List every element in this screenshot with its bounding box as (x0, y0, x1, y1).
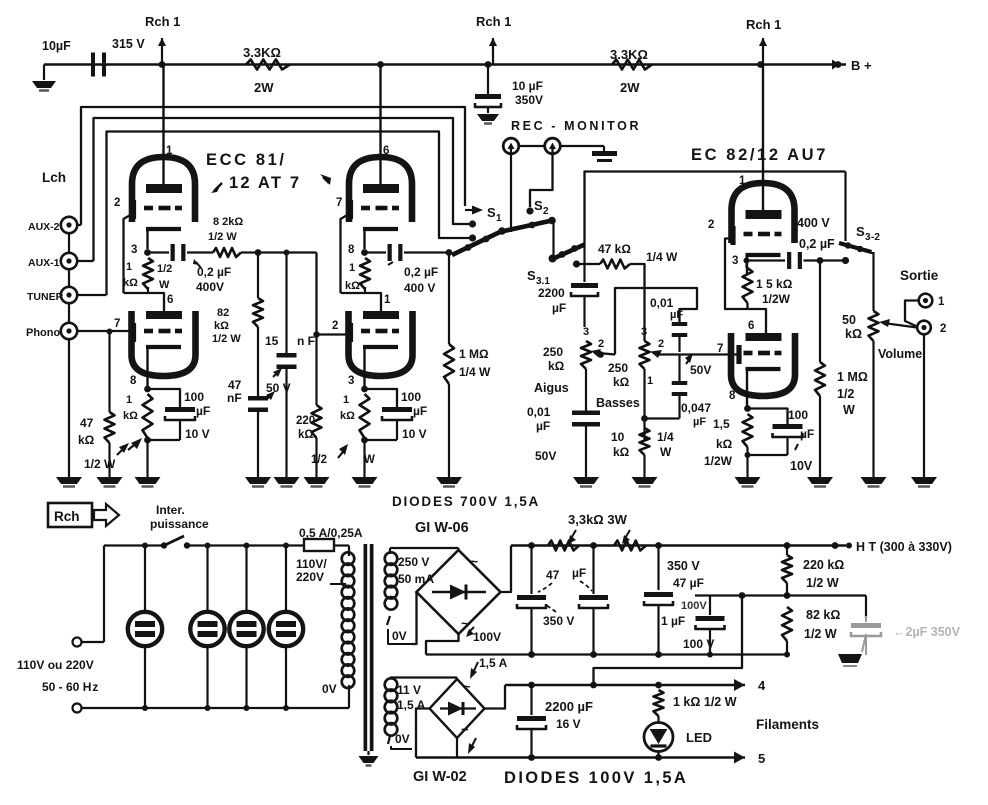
svg-text:TUNER: TUNER (27, 291, 64, 303)
label GI W-06 (415, 520, 469, 536)
svg-text:10 µF: 10 µF (512, 79, 543, 93)
node V2b cathode bottom (361, 437, 368, 477)
wire 8.2k out (241, 251, 317, 253)
fuse 0.5A/0.25A (299, 526, 363, 551)
svg-text:0,01: 0,01 (527, 405, 551, 419)
svg-text:kΩ: kΩ (340, 410, 355, 422)
ground 15nF (274, 477, 300, 487)
svg-text:6: 6 (748, 320, 754, 332)
rectifier bridge GI W-06 (417, 550, 501, 634)
triode V3a upper EC82 (732, 183, 795, 275)
node phono 47k tee (107, 329, 113, 335)
svg-text:100: 100 (788, 408, 808, 422)
svg-text:4: 4 (758, 678, 766, 693)
switch S1 wiper (452, 227, 506, 255)
wire Aigus wiper to bridge (615, 288, 697, 355)
svg-text:10V: 10V (790, 459, 813, 473)
svg-text:50V: 50V (535, 449, 556, 463)
resistor 3.3K 2W right (610, 47, 652, 95)
svg-text:350 V: 350 V (543, 614, 574, 628)
svg-text:~: ~ (463, 679, 471, 694)
label 0V LT winding (391, 732, 412, 749)
svg-text:nF: nF (227, 391, 242, 405)
label 3.3k 3W (568, 512, 630, 544)
switch inter on mains rail (161, 536, 190, 549)
potentiometer 250k Basses (596, 326, 664, 410)
svg-text:2: 2 (543, 206, 549, 217)
jack Sortie 1 (905, 294, 945, 326)
svg-text:100: 100 (401, 390, 421, 404)
svg-text:DIODES 100V 1,5A: DIODES 100V 1,5A (504, 769, 688, 787)
resistor 1.5k 1/2W V3a (743, 255, 793, 306)
jack REC right (530, 138, 560, 207)
capacitor 1uF 100V (661, 596, 725, 655)
svg-text:1: 1 (739, 175, 746, 187)
jack AUX-1 (28, 253, 94, 269)
triode V2b lower (349, 311, 413, 389)
svg-text:0,2 µF: 0,2 µF (197, 265, 231, 279)
wire V3b cathode to ground (745, 447, 751, 477)
ground 220k (304, 477, 330, 487)
svg-text:0,2 µF: 0,2 µF (404, 265, 438, 279)
svg-text:ECC 81/: ECC 81/ (206, 151, 287, 169)
resistor 1.5k V3b cathode (704, 414, 753, 468)
op tube V1a triode upper ECC81 (132, 157, 195, 249)
capacitor 15nF (265, 253, 315, 478)
svg-text:7: 7 (336, 197, 342, 209)
wire jack sleeve chain (68, 233, 70, 477)
svg-text:15: 15 (265, 334, 279, 348)
svg-text:2: 2 (940, 323, 946, 335)
wire HT2 to filament rail link (594, 596, 743, 686)
svg-text:S: S (527, 268, 536, 283)
svg-text:1/4 W: 1/4 W (459, 365, 491, 379)
svg-text:1/2W: 1/2W (762, 292, 791, 306)
jack Sortie 2 (917, 321, 946, 477)
wire bridge2 DC- down (457, 738, 476, 758)
wiper Aigus (591, 349, 615, 358)
capacitor 100uF 10V V1b (148, 389, 211, 441)
svg-text:Volume: Volume (878, 347, 922, 361)
wire bus line 1 AUX-2 to S1 (81, 107, 472, 225)
svg-text:220V: 220V (296, 570, 324, 584)
switch S3-2 (839, 172, 880, 253)
ground jack sleeves (56, 477, 82, 487)
node V2b cathode (361, 386, 368, 393)
svg-text:µF: µF (536, 419, 550, 433)
wire bus line 3 TUNER to S1 contact (107, 132, 470, 296)
jack Phono (26, 323, 131, 339)
resistor 1k V2b cathode (340, 394, 370, 438)
svg-text:S: S (856, 224, 865, 239)
svg-text:W: W (660, 445, 672, 459)
svg-text:REC - MONITOR: REC - MONITOR (511, 119, 641, 133)
wiper volume from sortie (879, 319, 917, 328)
svg-text:kΩ: kΩ (78, 433, 95, 447)
resistor 1k 1/2W LED (654, 690, 737, 716)
tube heater 1 (128, 543, 162, 712)
svg-text:2: 2 (114, 197, 120, 209)
capacitor 0.047uF tone (672, 355, 712, 429)
wire filament rail 4 (505, 682, 745, 689)
svg-text:µF: µF (572, 566, 586, 580)
node 1M volume tap (817, 257, 824, 264)
wire mains left leads (82, 546, 105, 643)
label pin 2 V2b (332, 320, 338, 332)
ground V3b cathode (735, 477, 761, 487)
svg-text:7: 7 (114, 318, 120, 330)
svg-text:1: 1 (349, 262, 355, 274)
label Inter puissance (150, 503, 209, 531)
svg-text:Rch 1: Rch 1 (476, 14, 511, 29)
svg-text:1 MΩ: 1 MΩ (837, 370, 868, 384)
ground sortie (911, 477, 937, 487)
wire 1k to pin 1 (341, 287, 392, 312)
svg-text:16 V: 16 V (556, 717, 581, 731)
svg-text:47 µF: 47 µF (673, 576, 704, 590)
svg-text:3: 3 (348, 375, 354, 387)
wiper Basses (650, 350, 737, 358)
wire grid line from tone (717, 343, 723, 355)
capacitor 47nF (227, 327, 275, 477)
wire V2a plate lead pin 6 (381, 65, 390, 187)
svg-text:kΩ: kΩ (298, 429, 314, 441)
wire V3a plate lead pin 1 (739, 65, 763, 212)
resistor 3.3k 3W first (528, 541, 597, 551)
Rch 1 arrow right (746, 17, 781, 65)
svg-text:µF: µF (693, 416, 706, 428)
label pin 7 V2a (336, 197, 342, 209)
svg-text:n F: n F (297, 334, 315, 348)
contact S1 arrow (472, 205, 502, 224)
svg-text:3.3KΩ: 3.3KΩ (243, 45, 281, 60)
wire V2a grid pin7 down (341, 214, 350, 293)
contact dot S1 b (469, 220, 476, 227)
svg-text:EC 82/12 AU7: EC 82/12 AU7 (691, 146, 828, 164)
svg-text:1/2 W: 1/2 W (804, 627, 837, 641)
svg-text:100 V: 100 V (683, 637, 714, 651)
svg-text:H T (300 à 330V): H T (300 à 330V) (856, 540, 952, 554)
node 15nF tap (284, 250, 290, 256)
wire filament rail 5 (416, 754, 745, 761)
wire cathode to ground (146, 440, 148, 477)
label pin 3 V3a (732, 255, 738, 267)
jack AUX-2 (28, 217, 81, 233)
svg-text:~: ~ (461, 722, 469, 737)
svg-text:Basses: Basses (596, 396, 640, 410)
label pin 2 V3a (708, 219, 714, 231)
svg-text:1,5: 1,5 (713, 417, 730, 431)
ground REC (592, 151, 617, 162)
node S3.1 out (573, 244, 600, 282)
svg-text:kΩ: kΩ (123, 410, 138, 422)
label pin 8 V2a (348, 244, 355, 256)
svg-text:0,047: 0,047 (681, 401, 711, 415)
resistor 220k grid leak V2b (296, 335, 375, 478)
svg-text:50 - 60 H z: 50 - 60 H z (42, 680, 98, 694)
terminal mains top (73, 638, 82, 647)
svg-text:kΩ: kΩ (345, 280, 360, 292)
label DIODES 700V 1.5A (392, 494, 540, 509)
jack REC left (503, 138, 519, 232)
svg-text:1/2 W: 1/2 W (84, 457, 116, 471)
svg-text:S: S (487, 205, 496, 220)
resistor 1k V1a cathode (123, 258, 172, 291)
capacitor extra 2uF 350V faint (851, 596, 961, 656)
svg-text:10: 10 (611, 430, 625, 444)
capacitor 47uF 350V first (517, 546, 546, 655)
svg-text:kΩ: kΩ (613, 375, 630, 389)
svg-text:µF: µF (196, 404, 210, 418)
wire bridge1 AC2 to 0V (411, 592, 417, 644)
svg-text:1: 1 (384, 294, 391, 306)
svg-text:3,3kΩ 3W: 3,3kΩ 3W (568, 512, 628, 527)
svg-text:1/2 W: 1/2 W (208, 231, 237, 243)
svg-text:1 µF: 1 µF (661, 614, 685, 628)
svg-text:1: 1 (343, 394, 349, 406)
LED (644, 716, 712, 758)
svg-text:2200 µF: 2200 µF (545, 699, 593, 714)
svg-text:Aigus: Aigus (534, 381, 569, 395)
svg-text:Filaments: Filaments (756, 717, 819, 732)
wire V1a plate lead pin 1 (164, 65, 174, 187)
node tube2 feed (377, 61, 384, 68)
svg-text:315 V: 315 V (112, 37, 145, 51)
wire volume bottom (872, 341, 874, 477)
label 100V bridge1 (466, 627, 501, 644)
contact dot S3-2 throw (842, 257, 849, 264)
wire bus line 2 AUX-1 to S1 contact (94, 118, 470, 261)
capacitor 0.01uF 50V Aigus bottom (527, 369, 600, 477)
svg-text:47: 47 (546, 568, 560, 582)
svg-text:1: 1 (166, 145, 173, 157)
Rch 1 arrow middle (476, 14, 511, 65)
svg-text:Rch 1: Rch 1 (746, 17, 781, 32)
resistor 10k 1/4W tone (611, 428, 674, 477)
label 1.5A lower bridge (470, 656, 508, 679)
svg-text:11 V: 11 V (397, 683, 421, 697)
svg-text:3: 3 (732, 255, 738, 267)
svg-text:1,5 A: 1,5 A (397, 698, 426, 712)
capacitor 100uF 10V V3b (748, 408, 815, 473)
label ECC 81 / 12 AT 7 (206, 151, 331, 193)
node V3b cathode (744, 405, 751, 412)
svg-text:5: 5 (758, 751, 765, 766)
label 11V 1.5A (397, 683, 426, 712)
tube heater 4 (269, 543, 303, 712)
svg-text:AUX-2: AUX-2 (28, 221, 60, 233)
wire 1.5k to pin 6 plate (748, 303, 767, 334)
node Rch1 tube1 feed (159, 61, 166, 68)
label DIODES 100V 1.5A (504, 769, 688, 787)
resistor 3.3K 2W left (243, 45, 290, 95)
svg-text:Inter.: Inter. (156, 503, 185, 517)
wire psu minus rail (426, 651, 790, 658)
node 10uF 350V tap (485, 61, 492, 68)
svg-text:1: 1 (496, 213, 502, 224)
transformer core (364, 544, 374, 751)
svg-text:µF: µF (413, 404, 427, 418)
svg-text:50V: 50V (690, 363, 711, 377)
svg-text:10µF: 10µF (42, 39, 71, 53)
label pin 8 V3b (729, 390, 736, 402)
svg-text:250: 250 (608, 361, 628, 375)
svg-text:W: W (843, 403, 855, 417)
label 0V HT winding (387, 616, 411, 644)
label Rch box (48, 503, 119, 527)
svg-text:kΩ: kΩ (548, 359, 565, 373)
svg-text:8: 8 (729, 390, 736, 402)
node V2a cathode out (361, 249, 368, 256)
capacitor 0.2uF 400V output (747, 216, 846, 269)
ground V1b cathode (135, 477, 161, 487)
svg-text:1/2: 1/2 (837, 387, 854, 401)
capacitor 2200uF 16V (517, 685, 593, 758)
tube heater 2 (190, 543, 224, 712)
svg-text:-2: -2 (871, 232, 880, 243)
svg-text:220: 220 (296, 415, 315, 427)
svg-text:1/4: 1/4 (657, 430, 674, 444)
wire secondary LT to bridge2 (390, 678, 457, 680)
capacitor 10uF 350V (475, 65, 543, 108)
label 47uF 350V (538, 566, 592, 628)
svg-text:2: 2 (598, 338, 604, 350)
wire mains top rail (104, 544, 349, 546)
label 250V 50mA (398, 555, 434, 586)
transformer secondary LT winding (385, 678, 398, 744)
label pin 8 V1b (130, 375, 137, 387)
svg-text:W: W (364, 454, 375, 466)
wire mains bottom rail (82, 707, 350, 709)
wire REC right to ground (561, 146, 605, 151)
svg-text:µF: µF (552, 301, 566, 315)
svg-text:0V: 0V (392, 629, 407, 643)
ground transformer core (359, 751, 379, 766)
triode V1b lower ECC81 (132, 311, 196, 389)
svg-text:400V: 400V (196, 280, 224, 294)
svg-text:3: 3 (641, 326, 647, 338)
svg-text:220 kΩ: 220 kΩ (803, 558, 844, 572)
ground 10uF 350V (477, 107, 499, 124)
svg-text:110V ou 220V: 110V ou 220V (17, 658, 94, 672)
ground faint cap (838, 634, 866, 666)
wire secondary HT to bridge (390, 548, 459, 551)
switch S2 wiper (504, 217, 556, 231)
label Lch (42, 170, 66, 185)
svg-text:3: 3 (583, 326, 589, 338)
resistor 8.2k 1/2W (208, 216, 243, 257)
resistor 47k phono grid leak (78, 331, 129, 477)
svg-text:250 V: 250 V (398, 555, 429, 569)
label pin 7 V1b (114, 318, 120, 330)
wire V1a grid pin2 down (124, 214, 133, 293)
wire bridge1 DC- to minus rail (426, 634, 459, 655)
switch S3.1 wiper (549, 245, 585, 263)
svg-text:Sortie: Sortie (900, 268, 939, 283)
svg-text:250: 250 (543, 345, 563, 359)
terminal B+ (832, 58, 872, 73)
svg-text:0,5 A/0,25A: 0,5 A/0,25A (299, 526, 363, 540)
svg-text:400 V: 400 V (404, 281, 435, 295)
capacitor 47uF 100V third (644, 546, 673, 655)
svg-text:1/2: 1/2 (157, 263, 172, 275)
ground 10k (632, 477, 658, 487)
wire S3-2 to volume (872, 252, 874, 311)
svg-text:GI W-02: GI W-02 (413, 769, 467, 785)
Rch 1 arrow left (145, 14, 180, 65)
svg-text:1/2 W: 1/2 W (212, 333, 241, 345)
resistor 220k 1/2W psu (782, 546, 844, 596)
label pin 3 V1a (131, 244, 137, 256)
wire coupling to V2b grid (313, 253, 349, 338)
terminal mains bottom (73, 704, 82, 713)
capacitor 100uF 10V V2b (365, 389, 428, 441)
svg-text:47: 47 (228, 378, 242, 392)
label 110V/220V primary tap (296, 557, 346, 584)
svg-text:GI W-06: GI W-06 (415, 520, 469, 536)
resistor 1k V1b cathode (123, 394, 153, 438)
svg-text:1/2W: 1/2W (704, 454, 733, 468)
wire bridge2 DC+ to filament rail (485, 685, 506, 709)
wire 1k to pin 6 (124, 287, 174, 312)
label 0V primary (322, 682, 337, 696)
arrow annotation 1k (128, 438, 142, 450)
svg-text:47 kΩ: 47 kΩ (598, 242, 631, 256)
potentiometer 50k volume (842, 311, 922, 361)
node V1a cathode out (144, 249, 151, 256)
wire monitor to S3-2 top rail (585, 172, 846, 245)
ground volume (861, 477, 887, 487)
svg-text:2: 2 (332, 320, 338, 332)
capacitor 10uF input (42, 37, 145, 77)
svg-text:8 2kΩ: 8 2kΩ (213, 216, 243, 228)
terminal HT (832, 540, 952, 554)
wire S2 pole down (552, 221, 554, 258)
label 110V ou 220V 50-60Hz (17, 658, 98, 694)
svg-text:100V: 100V (473, 630, 501, 644)
wire 47k to basses pot (630, 264, 645, 341)
ground 47nF (245, 477, 271, 487)
svg-text:3.3KΩ: 3.3KΩ (610, 47, 648, 62)
contact dot S1 c (469, 234, 476, 241)
capacitor 2200uF tone (538, 283, 598, 327)
svg-text:2W: 2W (620, 80, 640, 95)
label pin 2 V1a (114, 197, 120, 209)
label REC-MONITOR (511, 119, 641, 133)
resistor 82k 1/2W (212, 253, 263, 346)
svg-text:100: 100 (184, 390, 204, 404)
svg-text:2200: 2200 (538, 286, 565, 300)
ground V2b cathode (352, 477, 378, 487)
svg-text:8: 8 (130, 375, 137, 387)
transformer primary coil (342, 546, 355, 709)
svg-text:LED: LED (686, 730, 712, 745)
svg-text:7: 7 (717, 343, 723, 355)
svg-text:0V: 0V (322, 682, 337, 696)
svg-text:µF: µF (800, 427, 814, 441)
wire HT filter rail (511, 544, 846, 546)
svg-text:1 5 kΩ: 1 5 kΩ (756, 277, 793, 291)
svg-text:Phono: Phono (26, 327, 60, 339)
svg-text:6: 6 (383, 145, 389, 157)
svg-text:1: 1 (647, 375, 653, 387)
label Sortie (900, 268, 939, 283)
ground 1M 1/2W (807, 477, 833, 487)
svg-text:kΩ: kΩ (845, 327, 862, 341)
svg-text:Rch 1: Rch 1 (145, 14, 180, 29)
label pin 3 V2b (348, 375, 354, 387)
svg-text:Lch: Lch (42, 170, 66, 185)
